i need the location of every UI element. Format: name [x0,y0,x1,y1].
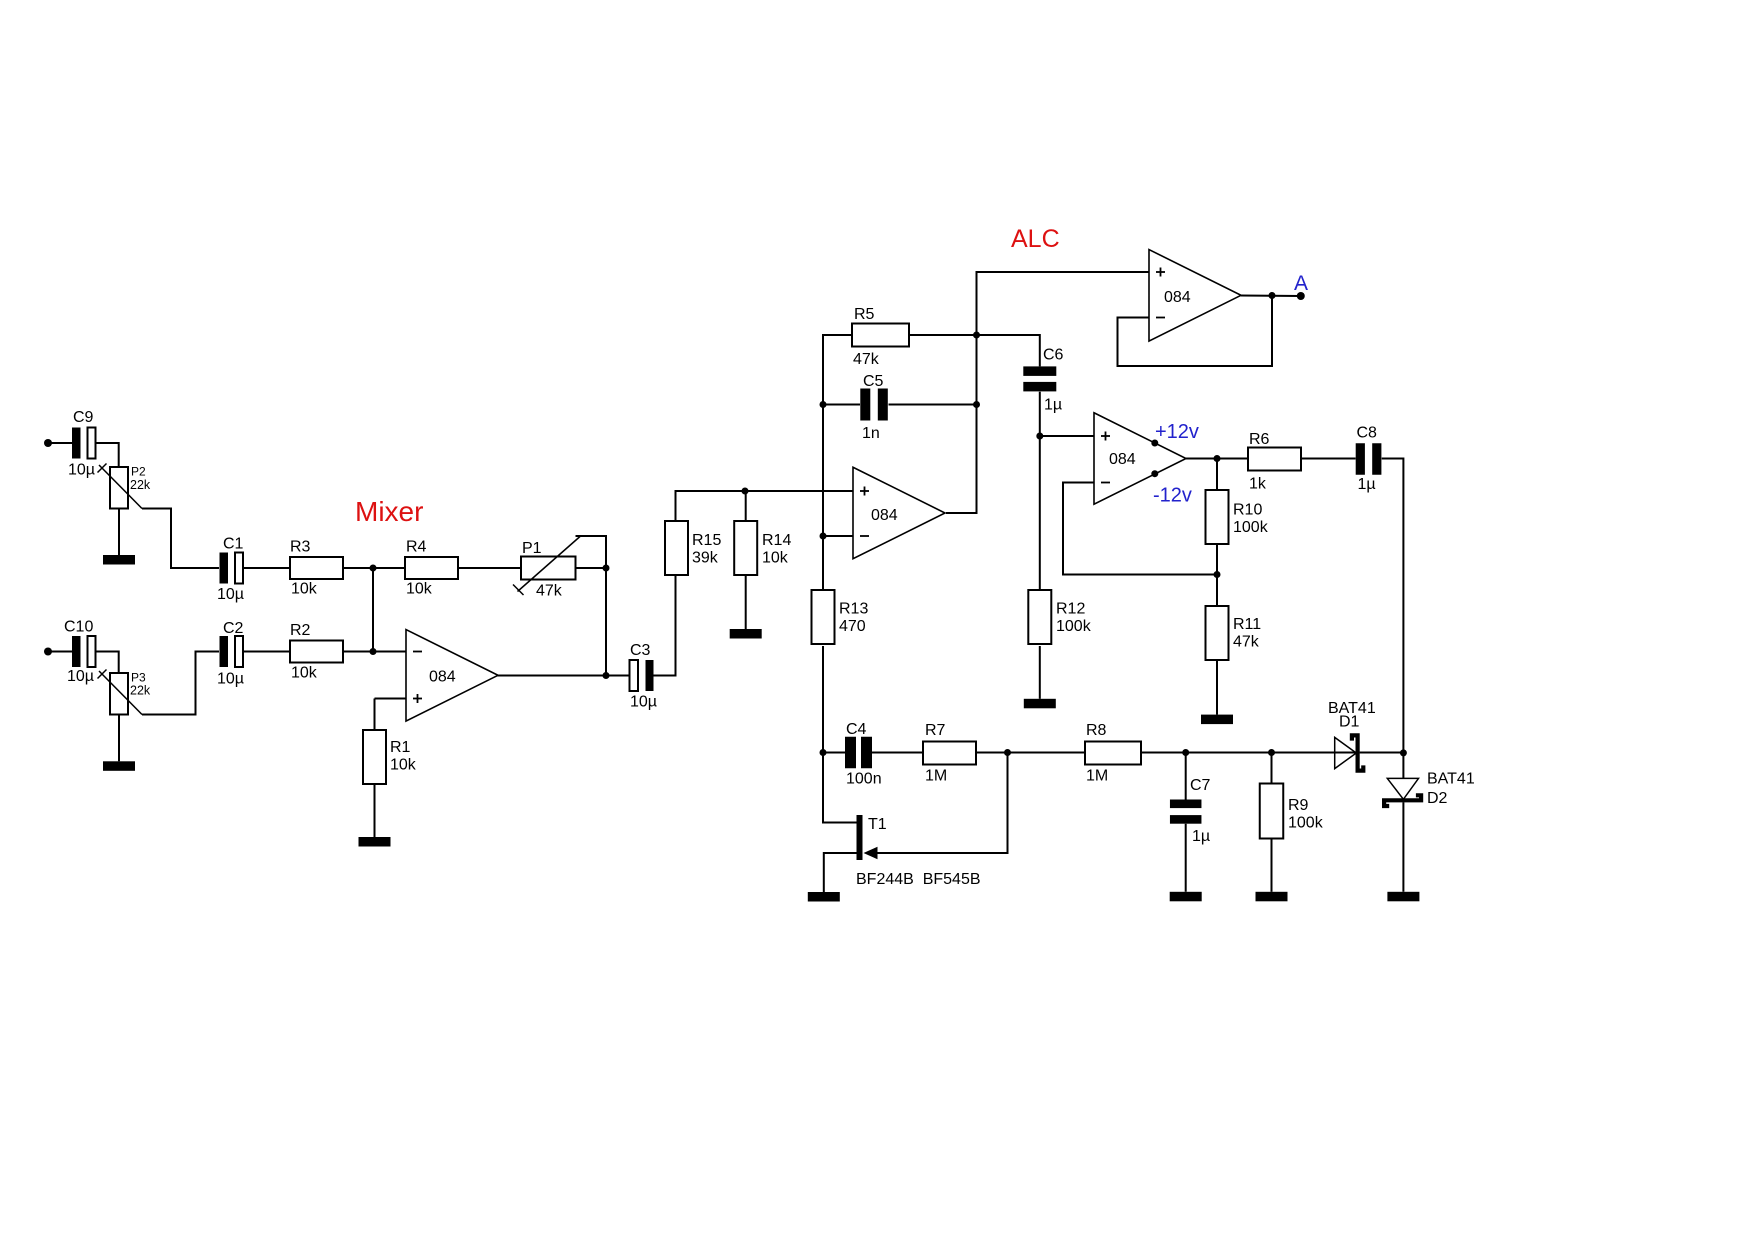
label R5 [854,306,875,323]
svg-text:100k: 100k [1288,815,1324,832]
node R5 right [973,332,980,339]
svg-text:D2: D2 [1427,790,1448,807]
wire R5 node to C6 [977,335,1040,366]
wire P2 bottom to ground [118,509,120,556]
label T1 [868,816,887,833]
svg-text:C10: C10 [64,619,93,636]
svg-text:C2: C2 [223,620,244,637]
node R9 top [1268,749,1275,756]
label U4 084 [1164,289,1191,306]
label C10 value 10µ [67,668,94,685]
wire input1 to C9 [48,442,72,444]
label C8 [1357,425,1378,442]
label -12v [1153,485,1192,507]
capacitor C5 [860,389,888,421]
svg-text:R12: R12 [1056,601,1085,618]
op-amp U2 (ALC 084) [853,467,945,559]
label C7 [1190,777,1211,794]
wire P2 wiper to C1 [142,509,219,569]
wire C6 node to R12 [1039,436,1041,590]
label C3 value 10µ [630,694,657,711]
node D1 cathode [1400,749,1407,756]
svg-text:C9: C9 [73,409,94,426]
node R2 input [370,648,377,655]
svg-text:10k: 10k [406,581,433,598]
svg-text:BF244B BF545B: BF244B BF545B [856,871,981,888]
wire R2 to U1 inverting input [343,651,406,653]
svg-text:R3: R3 [290,539,311,556]
capacitor C7 [1170,800,1202,824]
wire P1 to node [576,567,607,569]
capacitor C8 [1356,443,1382,475]
svg-text:1M: 1M [925,768,947,785]
label R2 value 10k [291,665,318,682]
label R9 value 100k [1288,815,1324,832]
svg-text:1µ: 1µ [1358,476,1376,493]
label C4 [846,721,867,738]
label R6 value 1k [1249,476,1267,493]
resistor R8 [1085,742,1141,765]
label U1 084 [429,669,456,686]
label Mixer [355,496,423,527]
node P1 right [603,565,610,572]
ground R1 [359,837,391,847]
wire C5 right [889,404,977,406]
label U2 084 [871,507,898,524]
ground R14 [730,629,762,639]
capacitor C2 [220,636,244,667]
label R7 [925,722,946,739]
wire U3 output to R6 [1186,458,1248,460]
svg-text:R1: R1 [390,739,411,756]
wire T1 gate [878,753,1008,854]
label R10 value 100k [1233,519,1269,536]
label C8 value 1µ [1358,476,1376,493]
wire R7 to R8 [976,752,1085,754]
transistor T1 (JFET) [857,815,878,860]
resistor R6 [1248,448,1301,471]
node C5 right [973,401,980,408]
capacitor C9 [72,428,96,459]
svg-text:10µ: 10µ [630,694,657,711]
label C4 value 100n [846,771,882,788]
svg-text:100k: 100k [1056,618,1092,635]
wire D2 anode [1402,753,1404,779]
wire input2 to C10 [48,651,72,653]
svg-text:100n: 100n [846,771,882,788]
label U3 084 [1109,451,1136,468]
potentiometer P2 [98,464,143,509]
label R9 [1288,797,1309,814]
svg-text:A: A [1294,272,1308,295]
capacitor C10 [72,636,96,667]
label D1 type BAT41 [1328,700,1376,717]
label R13 [839,601,868,618]
label C1 [223,536,244,553]
diode D2 (schottky) [1384,778,1421,806]
resistor R14 [734,521,757,575]
op-amp U4 (output buffer 084) [1149,250,1241,341]
node R3/R4 [370,565,377,572]
label P3 [131,671,146,685]
op-amp U1 (mixer 084) [406,630,498,722]
wire R9 top [1271,753,1273,784]
wire C10 to P3 top [96,652,119,674]
wire C4 to R7 [872,752,923,754]
label C5 [863,373,884,390]
wire D1 cathode to node [1360,752,1404,754]
label R5 value 47k [853,351,880,368]
svg-text:084: 084 [1109,451,1136,468]
svg-text:10k: 10k [291,581,318,598]
label R12 value 100k [1056,618,1092,635]
svg-text:1µ: 1µ [1044,397,1062,414]
resistor R7 [923,742,976,765]
wire R14 bottom to ground [745,576,747,630]
node U4 output [1269,292,1276,299]
label R11 [1233,616,1261,633]
svg-text:22k: 22k [130,684,151,698]
potentiometer P1 [513,537,580,596]
potentiometer P3 [98,670,143,715]
label R6 [1249,431,1270,448]
label P2 [131,465,146,479]
power +12v pin [1151,440,1158,447]
svg-text:P2: P2 [131,465,146,479]
label C2 [223,620,244,637]
wire R3 to R4 [343,567,405,569]
wire C5 left [823,404,860,406]
wire U4 feedback [1118,296,1273,367]
label +12v [1155,421,1199,443]
label R12 [1056,601,1085,618]
svg-text:R10: R10 [1233,502,1262,519]
svg-text:47k: 47k [536,583,563,600]
wire T1 node to C4 [823,752,845,754]
wire node568b down to opamp out [605,568,607,676]
wire C1 to R3 [244,567,291,569]
label R3 [290,539,311,556]
ground R11 [1201,715,1233,725]
svg-text:084: 084 [1164,289,1191,306]
wire T1 drain [823,753,857,823]
wire R12 bottom to ground [1039,646,1041,699]
ground P2 [103,555,135,565]
wire R8 to D1 [1141,752,1356,754]
wire node568 down to node651 [372,568,374,652]
label D2 [1427,790,1448,807]
svg-text:P3: P3 [131,671,146,685]
svg-text:1k: 1k [1249,476,1267,493]
ground P3 [103,761,135,771]
svg-text:R2: R2 [290,622,311,639]
label C9 value 10µ [68,462,95,479]
wire R10 bottom to R11 top [1216,545,1218,607]
svg-text:R5: R5 [854,306,875,323]
node input 2 terminal [44,648,52,656]
label P1 value 47k [536,583,563,600]
label R3 value 10k [291,581,318,598]
label C1 value 10µ [217,586,244,603]
wire C6 bottom to U3 [1040,392,1094,436]
wire R13 bottom to T1 drain [822,646,824,753]
resistor R5 [852,324,909,347]
label R14 value 10k [762,550,789,567]
label D1 [1339,714,1360,731]
label R7 value 1M [925,768,947,785]
wire R1 top [374,699,376,731]
wire C7 bottom to ground [1185,824,1187,892]
wire C9 to P2 top [96,443,119,467]
wire R6 to C8 [1301,458,1356,460]
node U3 output [1214,455,1221,462]
label P1 [522,540,542,557]
svg-text:R14: R14 [762,532,791,549]
svg-text:084: 084 [429,669,456,686]
label C10 [64,619,93,636]
svg-text:47k: 47k [1233,634,1260,651]
node U1 output [603,672,610,679]
svg-text:39k: 39k [692,550,719,567]
svg-text:+12v: +12v [1155,421,1199,443]
svg-text:100k: 100k [1233,519,1269,536]
svg-text:C5: C5 [863,373,884,390]
node A terminal [1297,292,1305,300]
node C4 left [820,749,827,756]
label R1 value 10k [390,757,417,774]
ground T1 [808,892,840,902]
resistor R3 [290,557,343,579]
capacitor C1 [220,553,244,584]
svg-text:R4: R4 [406,539,427,556]
ground R12 [1024,699,1056,709]
svg-text:-12v: -12v [1153,485,1192,507]
svg-text:470: 470 [839,618,866,635]
label node A [1294,272,1308,295]
label R8 value 1M [1086,768,1108,785]
label ALC [1011,225,1060,253]
label R10 [1233,502,1262,519]
svg-text:D1: D1 [1339,714,1360,731]
svg-text:10µ: 10µ [217,671,244,688]
resistor R15 [665,521,688,575]
wire U2 output up to U4 [946,272,1149,513]
wire R9 bottom to ground [1271,839,1273,892]
resistor R9 [1260,784,1284,839]
node T1 gate [1004,749,1011,756]
svg-text:R9: R9 [1288,797,1309,814]
resistor R4 [405,557,458,579]
ground R9 [1256,892,1288,902]
wire P3 bottom to ground [118,715,120,762]
svg-text:T1: T1 [868,816,887,833]
wire C7 top [1185,753,1187,800]
label C6 [1043,347,1064,364]
label P3 value 22k [130,684,151,698]
node C6 bottom [1036,433,1043,440]
wire T1 source to ground [824,853,857,892]
wire R10 top [1216,459,1218,491]
label D2 type BAT41 [1427,771,1475,788]
ground C7 [1170,892,1202,902]
svg-text:10µ: 10µ [217,586,244,603]
svg-text:084: 084 [871,507,898,524]
resistor R10 [1206,490,1229,544]
svg-text:C3: C3 [630,642,651,659]
label C5 value 1n [862,425,880,442]
label R1 [390,739,411,756]
label C6 value 1µ [1044,397,1062,414]
svg-text:10µ: 10µ [67,668,94,685]
ground D2 [1387,892,1419,902]
wire U2 inverting input [823,535,853,537]
svg-text:P1: P1 [522,540,542,557]
wire R1 to U1 noninverting input [375,698,407,700]
wire R15 top to U2 input row [676,491,854,521]
node input 1 terminal [44,439,52,447]
svg-text:10k: 10k [390,757,417,774]
capacitor C3 [630,660,654,691]
label C9 [73,409,94,426]
wire C3 to R15 [654,576,676,676]
svg-text:47k: 47k [853,351,880,368]
svg-text:R6: R6 [1249,431,1270,448]
wire R14 top [745,491,747,521]
label R11 value 47k [1233,634,1260,651]
label C7 value 1µ [1192,828,1210,845]
node R10 bottom [1214,571,1221,578]
svg-text:1µ: 1µ [1192,828,1210,845]
resistor R2 [290,641,343,663]
wire C2 to R2 [244,651,291,653]
svg-text:ALC: ALC [1011,225,1060,253]
svg-text:C7: C7 [1190,777,1211,794]
wire R5 right [909,334,977,336]
svg-text:R8: R8 [1086,722,1107,739]
wire R4 to P1 [459,567,521,569]
resistor R12 [1028,590,1051,644]
label R4 value 10k [406,581,433,598]
power -12v pin [1151,470,1158,477]
label R2 [290,622,311,639]
svg-text:C6: C6 [1043,347,1064,364]
svg-text:10µ: 10µ [68,462,95,479]
node C5 left [820,401,827,408]
node C7 top [1182,749,1189,756]
svg-text:C4: C4 [846,721,867,738]
svg-text:R7: R7 [925,722,946,739]
label T1 types BF244B BF545B [856,871,981,888]
svg-text:10k: 10k [762,550,789,567]
label R15 [692,532,721,549]
resistor R1 [363,730,386,784]
svg-text:Mixer: Mixer [355,496,423,527]
label R15 value 39k [692,550,719,567]
capacitor C6 [1023,366,1056,391]
node U2 inverting [820,533,827,540]
resistor R11 [1206,606,1229,660]
wire P1 wiper [576,536,607,568]
op-amp U3 (ALC 084) [1094,413,1186,505]
label C2 value 10µ [217,671,244,688]
resistor R13 [812,590,835,644]
label R8 [1086,722,1107,739]
svg-text:1n: 1n [862,425,880,442]
wire R1 bottom to ground [374,784,376,837]
label P2 value 22k [130,478,151,492]
label R4 [406,539,427,556]
wire U4 output to A [1241,295,1301,298]
svg-text:R13: R13 [839,601,868,618]
svg-text:R15: R15 [692,532,721,549]
svg-text:C1: C1 [223,536,244,553]
wire R5 left branch [823,335,852,590]
wire D2 cathode to ground [1402,802,1404,892]
label R13 value 470 [839,618,866,635]
svg-text:22k: 22k [130,478,151,492]
wire R11 bottom to ground [1216,660,1218,715]
svg-text:BAT41: BAT41 [1427,771,1475,788]
node R14 top [742,488,749,495]
svg-text:C8: C8 [1357,425,1378,442]
svg-text:10k: 10k [291,665,318,682]
label R14 [762,532,791,549]
wire P3 wiper to C2 [142,652,219,715]
svg-text:1M: 1M [1086,768,1108,785]
label C3 [630,642,651,659]
capacitor C4 [845,737,872,769]
svg-text:R11: R11 [1233,616,1261,633]
diode D1 (schottky) [1335,735,1364,770]
wire U1 output [498,675,630,677]
wire C8 to D-node [1382,459,1404,753]
wire U3 inverting loop [1063,483,1217,575]
